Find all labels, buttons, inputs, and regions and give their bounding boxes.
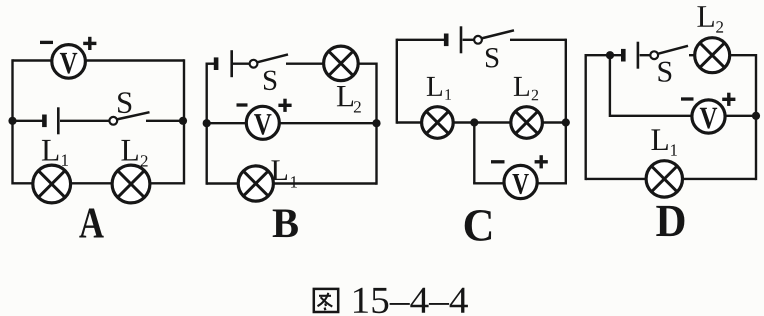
circuit B: [203, 46, 381, 237]
junction dot B left: [203, 119, 211, 127]
lamp L2 (A): [112, 165, 150, 203]
junction dot A left: [8, 117, 16, 125]
wire D voltmeter right: [725, 115, 756, 117]
wire D top-right: [731, 54, 756, 56]
label L1 (B): [271, 160, 297, 187]
plus sign (A voltmeter): [83, 37, 96, 50]
plus sign (D voltmeter): [722, 93, 735, 106]
label C: [465, 210, 491, 241]
label L2 (D): [697, 6, 723, 32]
lamp L1 (A): [33, 165, 71, 203]
wire A mid-center: [60, 120, 110, 122]
wire A left rail: [11, 59, 13, 184]
minus sign (D voltmeter): [681, 97, 694, 100]
plus sign (C voltmeter): [535, 155, 548, 168]
minus sign (C voltmeter): [491, 160, 505, 163]
wire C voltmeter drop: [473, 123, 475, 184]
wire B top-mid2: [286, 63, 324, 65]
wire D top-left: [586, 54, 623, 56]
switch S (D): [650, 46, 688, 59]
junction dot D right: [752, 112, 760, 120]
lamp L1 (C): [422, 107, 454, 139]
wire C voltmeter right: [537, 182, 568, 184]
junction dot C right: [562, 118, 570, 126]
switch S (A): [109, 112, 149, 125]
wire A right rail: [183, 59, 185, 184]
lamp L1 (B): [238, 166, 273, 201]
wire D right rail: [755, 54, 757, 180]
junction dot D top: [606, 51, 614, 59]
switch S (C): [474, 30, 514, 43]
voltmeter V (A): [52, 45, 86, 79]
junction dot A right: [179, 117, 187, 125]
wire D left rail: [585, 54, 587, 180]
caption figure label 图: [314, 289, 338, 312]
wire B top-mid: [233, 63, 250, 65]
voltmeter V (D): [692, 100, 725, 133]
wire D bottom: [586, 178, 756, 180]
wire C top-right: [510, 39, 566, 41]
wire B top-left: [207, 63, 216, 65]
wire A top-right: [86, 59, 184, 61]
minus sign (B voltmeter): [237, 103, 248, 106]
wire D top-mid2: [689, 54, 695, 56]
lamp L2 (D): [695, 38, 730, 73]
label B: [273, 210, 298, 238]
wire D top-mid: [640, 54, 650, 56]
wire B bottom: [207, 182, 377, 184]
wire C left rail: [396, 39, 398, 124]
plus sign (B voltmeter): [278, 99, 291, 112]
wire B right rail: [375, 63, 377, 185]
wire A mid-left: [13, 120, 45, 122]
label S (C): [486, 48, 498, 68]
label L1 (D): [651, 129, 677, 155]
battery (B): [216, 50, 232, 77]
minus sign (A voltmeter): [40, 41, 53, 44]
wire A top-left: [13, 59, 52, 61]
label D: [656, 206, 684, 236]
wire C right rail: [565, 39, 567, 185]
circuit D: [586, 6, 760, 236]
wire C top-mid: [463, 39, 475, 41]
label L1 (C): [427, 77, 451, 100]
wire B middle: [207, 122, 377, 124]
circuit C: [397, 26, 570, 241]
wire A mid-right: [146, 120, 184, 122]
wire D voltmeter left: [610, 115, 692, 117]
wire C voltmeter left: [473, 182, 504, 184]
label S (A): [118, 92, 131, 113]
junction dot B right: [372, 119, 380, 127]
wire C top-left: [397, 39, 446, 41]
wire D voltmeter drop: [609, 55, 611, 117]
label L2 (C): [514, 77, 538, 100]
lamp L2 (C): [511, 107, 543, 139]
wire B top-right: [359, 63, 377, 65]
wire A bottom: [13, 182, 185, 184]
voltmeter V (C): [504, 165, 537, 198]
wire B left rail: [205, 63, 207, 185]
label A: [79, 209, 103, 238]
switch S (B): [250, 54, 288, 67]
label S (B): [264, 71, 276, 91]
label L2 (A): [121, 140, 147, 167]
lamp L2 (B): [324, 46, 359, 81]
label S (D): [659, 62, 672, 82]
battery (C): [446, 26, 461, 53]
voltmeter V (B): [246, 106, 279, 139]
circuit A: [8, 37, 187, 238]
battery (D): [623, 42, 638, 69]
label L2 (B): [337, 86, 361, 113]
lamp L1 (D): [646, 161, 682, 197]
battery (A): [44, 107, 58, 134]
junction dot C mid: [470, 118, 478, 126]
wire C middle: [397, 121, 566, 123]
label L1 (A): [42, 140, 68, 166]
caption text 15-4-4: [354, 288, 468, 314]
